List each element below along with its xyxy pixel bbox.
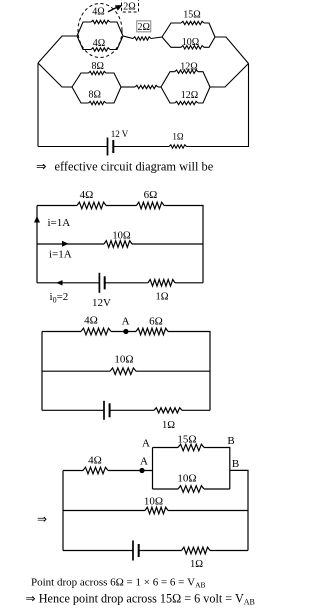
svg-text:1Ω: 1Ω [172, 132, 184, 142]
svg-text:1Ω: 1Ω [162, 420, 175, 431]
svg-text:i=1A: i=1A [48, 217, 71, 229]
svg-text:15Ω: 15Ω [177, 434, 196, 446]
svg-text:12V: 12V [92, 297, 111, 309]
svg-text:6Ω: 6Ω [144, 189, 158, 201]
svg-text:2Ω: 2Ω [123, 2, 135, 13]
svg-text:8Ω: 8Ω [88, 90, 100, 101]
svg-text:1Ω: 1Ω [155, 292, 168, 303]
svg-text:⇒effective circuit diagram wil: ⇒effective circuit diagram will be [36, 160, 214, 174]
svg-text:2Ω: 2Ω [137, 22, 149, 33]
svg-text:10Ω: 10Ω [182, 37, 199, 48]
svg-text:12 V: 12 V [111, 129, 129, 139]
svg-text:⇒: ⇒ [37, 512, 47, 526]
svg-text:4Ω: 4Ω [92, 7, 104, 18]
svg-text:B: B [232, 458, 239, 470]
svg-text:A: A [142, 438, 150, 450]
svg-text:i0=2: i0=2 [50, 291, 69, 305]
svg-text:8Ω: 8Ω [91, 61, 103, 72]
svg-text:4Ω: 4Ω [80, 189, 94, 201]
svg-text:⇒ Hence point drop across 15Ω: ⇒ Hence point drop across 15Ω = 6 volt =… [26, 592, 255, 607]
svg-text:10Ω: 10Ω [177, 473, 196, 485]
svg-text:Point drop across 6Ω = 1 × 6 =: Point drop across 6Ω = 1 × 6 = 6 = VAB [31, 577, 206, 590]
svg-text:10Ω: 10Ω [114, 354, 133, 366]
svg-text:A: A [140, 456, 148, 468]
svg-text:1Ω: 1Ω [190, 559, 203, 570]
svg-text:10Ω: 10Ω [112, 231, 131, 242]
svg-text:12Ω: 12Ω [181, 90, 198, 101]
svg-text:i=1A: i=1A [49, 249, 72, 261]
svg-text:B: B [227, 435, 234, 447]
svg-text:10Ω: 10Ω [144, 496, 163, 508]
svg-text:12Ω: 12Ω [180, 61, 197, 72]
svg-text:15Ω: 15Ω [183, 9, 200, 20]
svg-text:4Ω: 4Ω [84, 315, 98, 327]
svg-text:4Ω: 4Ω [88, 455, 102, 467]
svg-text:A: A [122, 316, 130, 328]
svg-text:4Ω: 4Ω [93, 38, 105, 49]
svg-text:6Ω: 6Ω [149, 316, 163, 328]
